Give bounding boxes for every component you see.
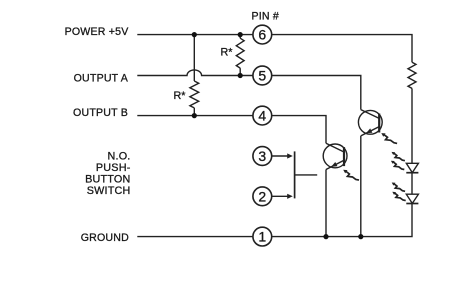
svg-text:R*: R* bbox=[174, 90, 187, 102]
wire Q1 emitter to ground bbox=[325, 170, 327, 237]
wire D2 to ground rail bbox=[272, 204, 412, 237]
svg-text:GROUND: GROUND bbox=[81, 232, 129, 244]
pin 3 bbox=[253, 147, 272, 166]
wire OUTPUT B rail bbox=[137, 115, 253, 117]
svg-text:R*: R* bbox=[221, 46, 234, 58]
resistor R* pull-up A bbox=[236, 35, 244, 76]
photon arrows LED D1 bbox=[391, 152, 405, 170]
svg-text:3: 3 bbox=[258, 148, 266, 164]
wire pin4 to Q1 collector bbox=[272, 116, 326, 144]
wire resistor to LED D1 bbox=[411, 88, 413, 163]
junction dot v1 bottom bbox=[192, 113, 197, 118]
wire pin3 arrow to switch bbox=[272, 153, 293, 158]
LED D2 bbox=[406, 194, 418, 203]
pin 2 bbox=[253, 187, 272, 206]
wire POWER rail right to LED branch bbox=[272, 35, 412, 63]
svg-text:POWER +5V: POWER +5V bbox=[65, 26, 130, 38]
switch bar bbox=[294, 151, 296, 198]
phototransistor Q1 (lower, output B) bbox=[323, 143, 347, 169]
photon arrows LED D2 bbox=[392, 183, 406, 201]
wire pin5 to Q2 collector bbox=[272, 76, 361, 110]
svg-text:5: 5 bbox=[258, 68, 266, 84]
wire D1 to D2 bbox=[411, 173, 413, 195]
pin 1 bbox=[253, 227, 272, 246]
svg-text:PUSH-: PUSH- bbox=[96, 162, 131, 174]
switch actuator stub bbox=[295, 174, 318, 176]
svg-text:2: 2 bbox=[258, 188, 266, 204]
resistor R* pull-up B bbox=[190, 81, 199, 116]
svg-text:1: 1 bbox=[258, 229, 266, 245]
phototransistor Q2 (upper, output A) bbox=[358, 110, 382, 136]
junction dot Q2 emitter/ground bbox=[358, 234, 363, 239]
junction dot v2 top bbox=[238, 32, 243, 37]
svg-text:OUTPUT A: OUTPUT A bbox=[74, 73, 129, 85]
junction dot Q1 emitter/ground bbox=[323, 234, 328, 239]
resistor right (LED current limit) bbox=[408, 62, 416, 88]
wire OUTPUT A rail with hop over pull-up B bbox=[137, 70, 253, 76]
junction dot v2 bottom bbox=[238, 73, 243, 78]
svg-text:BUTTON: BUTTON bbox=[85, 173, 130, 185]
pin 5 bbox=[253, 66, 272, 85]
svg-text:OUTPUT B: OUTPUT B bbox=[73, 107, 128, 119]
wire pin2 arrow to switch bbox=[272, 194, 293, 199]
wire Q2 emitter to ground bbox=[360, 136, 362, 237]
photon arrow into Q2 bbox=[381, 133, 397, 143]
svg-text:6: 6 bbox=[258, 27, 266, 43]
pin 6 bbox=[253, 25, 272, 44]
svg-text:N.O.: N.O. bbox=[108, 150, 131, 162]
label N.O. PUSH-BUTTON SWITCH bbox=[85, 150, 131, 197]
wire GROUND rail left bbox=[137, 236, 253, 238]
photon arrow into Q1 bbox=[343, 170, 359, 180]
LED D1 bbox=[406, 163, 418, 172]
wire POWER rail left bbox=[137, 34, 253, 36]
svg-text:SWITCH: SWITCH bbox=[87, 185, 131, 197]
junction dot v1 top bbox=[192, 32, 197, 37]
pin 4 bbox=[253, 106, 272, 125]
svg-text:PIN #: PIN # bbox=[252, 11, 280, 23]
wire +5V down to pull-up B bbox=[193, 35, 195, 81]
svg-text:4: 4 bbox=[258, 108, 266, 124]
